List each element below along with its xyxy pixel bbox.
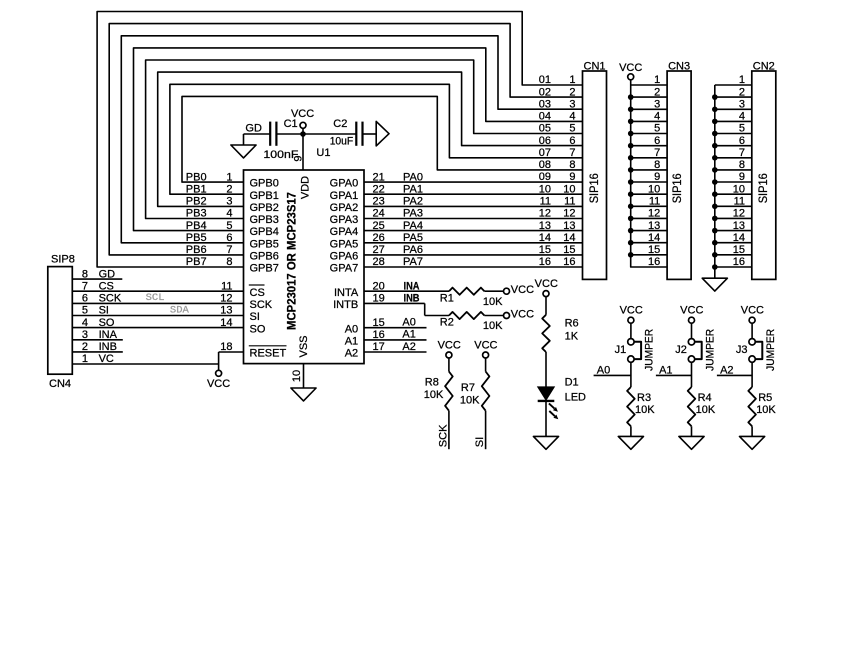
svg-text:13: 13 (539, 220, 551, 232)
wire net PA6 from U1 pin 27 to CN1 pin 15 (364, 254, 583, 256)
svg-text:CS: CS (250, 287, 265, 299)
svg-text:8: 8 (226, 256, 232, 268)
connector CN3 SIP16 body (667, 71, 691, 279)
svg-text:GPA7: GPA7 (330, 263, 359, 275)
resistor R8 (445, 372, 453, 411)
svg-text:GPB4: GPB4 (250, 226, 279, 238)
junction ground bus at CN2 pin 12 (712, 216, 718, 222)
svg-text:GPB7: GPB7 (250, 263, 279, 275)
wire CN2 pin 12 to ground bus (715, 217, 752, 219)
svg-text:GPA1: GPA1 (330, 190, 359, 202)
wire R1 to VCC pin (484, 290, 503, 292)
svg-text:INB: INB (404, 293, 420, 305)
wire CN2 pin 7 to ground bus (715, 157, 752, 159)
svg-text:JUMPER: JUMPER (765, 329, 777, 371)
wire VDD supply rail (244, 133, 271, 135)
svg-text:VCC: VCC (680, 305, 703, 317)
wire net GD stub at CN4 pin 8 (72, 278, 122, 280)
wire VCC to J2 pin 1 (691, 323, 693, 338)
resistor R4 (688, 387, 696, 426)
svg-text:SCL: SCL (146, 292, 165, 304)
wire VCC node to C2 (303, 133, 356, 135)
junction ground bus at CN2 pin 15 (712, 252, 718, 258)
wire CN3 pin 11 to VCC bus (631, 205, 667, 207)
svg-text:R3: R3 (637, 392, 651, 404)
svg-text:A2: A2 (720, 364, 733, 376)
capacitor C2 (355, 122, 357, 146)
svg-text:24: 24 (373, 208, 385, 220)
svg-text:CN3: CN3 (668, 60, 690, 72)
svg-text:PB4: PB4 (186, 220, 207, 232)
svg-text:VCC: VCC (291, 108, 314, 120)
svg-text:A0: A0 (597, 364, 610, 376)
wire CN2 pin 14 to ground bus (715, 242, 752, 244)
svg-text:02: 02 (539, 86, 551, 98)
svg-text:08: 08 (539, 159, 551, 171)
wire RESET to U1 pin 18 (219, 351, 244, 353)
wire VDD down to U1 (302, 134, 304, 170)
wire J1 pin 2 down to R3 (630, 362, 632, 387)
svg-text:10: 10 (733, 183, 745, 195)
wire net PA2 from U1 pin 23 to CN1 pin 11 (364, 205, 583, 207)
svg-text:2: 2 (654, 86, 660, 98)
svg-text:01: 01 (539, 74, 551, 86)
svg-text:10K: 10K (756, 404, 776, 416)
svg-text:VCC: VCC (207, 378, 230, 390)
jumper J2 pin 1 (688, 339, 694, 345)
wire net PA7 from U1 pin 28 to CN1 pin 16 (364, 266, 583, 268)
wire CN2 pin 13 to ground bus (715, 230, 752, 232)
wire net INB from U1 pin 19 (364, 302, 425, 304)
svg-text:16: 16 (539, 256, 551, 268)
svg-text:A2: A2 (345, 348, 358, 360)
junction ground bus at CN2 pin 13 (712, 228, 718, 234)
svg-text:PB5: PB5 (186, 232, 207, 244)
wire CN3 pin 15 to VCC bus (631, 254, 667, 256)
wire VC riser to RESET (218, 352, 220, 364)
svg-text:1: 1 (654, 74, 660, 86)
svg-text:J1: J1 (615, 344, 627, 356)
ground J2 symbol (679, 436, 704, 449)
svg-text:4: 4 (226, 208, 232, 220)
svg-text:A1: A1 (659, 364, 672, 376)
wire net SCK from CN4 pin 6 to U1 pin 12 (72, 302, 243, 304)
svg-text:VCC: VCC (511, 309, 534, 321)
svg-text:GD: GD (245, 123, 262, 135)
wire VCC to R7 (485, 358, 487, 372)
svg-text:10K: 10K (635, 404, 655, 416)
jumper J3 pin 2 (749, 356, 755, 362)
svg-text:9: 9 (654, 171, 660, 183)
svg-text:GPA5: GPA5 (330, 238, 359, 250)
wire net A0 stub at U1 (364, 327, 427, 329)
resistor R2 (449, 312, 484, 319)
svg-text:VSS: VSS (298, 335, 310, 357)
wire CN2 pin 9 to ground bus (715, 181, 752, 183)
junction VCC bus at CN3 pin 9 (628, 179, 634, 185)
wire net A0 to J1 (594, 374, 631, 376)
jumper J1 pin 1 (628, 339, 634, 345)
power VCC pin at R7 (483, 352, 489, 358)
svg-text:28: 28 (373, 256, 385, 268)
svg-text:PB0: PB0 (186, 171, 207, 183)
svg-text:12: 12 (648, 208, 660, 220)
wire CN3 pin 10 to VCC bus (631, 193, 667, 195)
svg-text:GPB3: GPB3 (250, 214, 279, 226)
wire R5 to ground (751, 426, 753, 436)
ground CN2 symbol (702, 278, 727, 291)
junction ground bus at CN2 pin 16 (712, 264, 718, 270)
wire net PB4 from U1 pin 5 loop to CN1 pin 4 (134, 48, 583, 231)
svg-text:VCC: VCC (511, 284, 534, 296)
svg-text:3: 3 (226, 196, 232, 208)
wire R7 to net SI (485, 411, 487, 450)
junction VCC bus at CN3 pin 6 (628, 143, 634, 149)
svg-text:6: 6 (226, 232, 232, 244)
svg-text:13: 13 (563, 220, 575, 232)
svg-text:11: 11 (540, 196, 551, 208)
svg-text:J2: J2 (675, 344, 687, 356)
svg-text:8: 8 (739, 159, 745, 171)
svg-text:11: 11 (649, 196, 660, 208)
svg-text:10K: 10K (424, 389, 444, 401)
junction VCC bus at CN3 pin 11 (628, 204, 634, 210)
svg-text:J3: J3 (736, 344, 748, 356)
svg-text:13: 13 (733, 220, 745, 232)
svg-text:03: 03 (539, 99, 551, 111)
svg-text:PB1: PB1 (186, 183, 207, 195)
svg-text:PA5: PA5 (403, 232, 423, 244)
svg-text:14: 14 (563, 232, 575, 244)
power VCC pin at RESET (218, 364, 220, 370)
svg-text:SIP8: SIP8 (51, 254, 75, 266)
junction ground bus at CN2 pin 9 (712, 179, 718, 185)
wire net INA from U1 pin 20 to R1 (364, 290, 449, 292)
svg-text:A1: A1 (345, 336, 358, 348)
svg-text:VCC: VCC (620, 305, 643, 317)
junction VCC bus at CN3 pin 5 (628, 131, 634, 137)
svg-text:7: 7 (226, 244, 232, 256)
svg-text:14: 14 (648, 232, 660, 244)
svg-text:3: 3 (739, 99, 745, 111)
svg-text:06: 06 (539, 135, 551, 147)
junction VCC bus at CN3 pin 8 (628, 167, 634, 173)
junction VCC bus at CN3 pin 15 (628, 252, 634, 258)
svg-text:JUMPER: JUMPER (644, 329, 656, 371)
svg-text:C2: C2 (333, 118, 347, 130)
svg-text:15: 15 (539, 244, 551, 256)
svg-text:MCP23017 OR MCP23S17: MCP23017 OR MCP23S17 (284, 192, 298, 330)
svg-text:27: 27 (373, 244, 385, 256)
wire net PB7 from U1 pin 8 loop to CN1 pin 1 (97, 12, 582, 268)
svg-text:15: 15 (648, 244, 660, 256)
connector CN2 SIP16 body (752, 71, 776, 279)
jumper J3 pin 1 (749, 339, 755, 345)
svg-text:SO: SO (250, 323, 266, 335)
junction VCC bus at CN3 pin 7 (628, 155, 634, 161)
ground J1 symbol (618, 436, 643, 449)
svg-text:PA2: PA2 (403, 196, 423, 208)
wire CN3 pin 8 to VCC bus (631, 169, 667, 171)
wire C1 to VCC node (276, 133, 303, 135)
svg-text:CN2: CN2 (753, 60, 775, 72)
resistor R5 (748, 387, 756, 426)
ground VSS symbol (291, 388, 316, 401)
svg-text:5: 5 (569, 123, 575, 135)
svg-text:04: 04 (539, 111, 551, 123)
svg-text:D1: D1 (565, 377, 579, 389)
svg-text:8: 8 (654, 159, 660, 171)
wire net INB stub at CN4 pin 2 (72, 351, 123, 353)
svg-text:5: 5 (654, 123, 660, 135)
LED D1 triangle (538, 387, 555, 400)
svg-text:VCC: VCC (438, 339, 461, 351)
svg-text:GPB1: GPB1 (250, 190, 279, 202)
junction ground bus at CN2 pin 8 (712, 167, 718, 173)
junction VCC bus at CN3 pin 2 (628, 94, 634, 100)
svg-text:6: 6 (569, 135, 575, 147)
svg-text:GPA4: GPA4 (330, 226, 359, 238)
resistor R6 (542, 315, 550, 352)
svg-text:10K: 10K (460, 395, 480, 407)
wire VSS to ground (303, 364, 305, 388)
svg-text:CN4: CN4 (49, 378, 71, 390)
junction VCC bus at CN3 pin 4 (628, 119, 634, 125)
power VCC pin at J1 (628, 317, 634, 323)
wire VCC bus CN3 (631, 80, 667, 267)
resistor R1 (449, 288, 484, 295)
svg-text:R6: R6 (565, 318, 579, 330)
wire net PB2 from U1 pin 3 loop to CN1 pin 6 (158, 72, 583, 206)
wire CN2 pin 4 to ground bus (715, 120, 752, 122)
svg-text:1: 1 (739, 74, 745, 86)
svg-text:22: 22 (373, 183, 385, 195)
svg-text:GPA0: GPA0 (330, 178, 359, 190)
power VCC pin at R8 (446, 352, 452, 358)
svg-text:R5: R5 (758, 392, 772, 404)
wire R8 to net SCK (448, 411, 450, 450)
jumper J2 bracket (695, 342, 702, 359)
wire R3 to ground (630, 426, 632, 436)
ground GD symbol (231, 145, 256, 158)
svg-text:PA0: PA0 (403, 171, 423, 183)
wire C2 to ground arrow (363, 133, 376, 135)
svg-text:R4: R4 (698, 392, 712, 404)
wire net PB5 from U1 pin 6 loop to CN1 pin 3 (121, 36, 582, 243)
svg-text:SIP16: SIP16 (756, 173, 770, 203)
svg-text:13: 13 (648, 220, 660, 232)
svg-text:15: 15 (733, 244, 745, 256)
wire VCC to J1 pin 1 (630, 323, 632, 338)
junction ground bus at CN2 pin 11 (712, 204, 718, 210)
wire net PA0 from U1 pin 21 to CN1 pin 9 (364, 181, 583, 183)
svg-text:5: 5 (226, 220, 232, 232)
svg-text:SI: SI (474, 437, 486, 447)
resistor R3 (627, 387, 635, 426)
svg-text:CN1: CN1 (584, 60, 606, 72)
wire ground bus CN2 (714, 85, 716, 278)
svg-text:GPB0: GPB0 (250, 178, 279, 190)
svg-text:VCC: VCC (474, 339, 497, 351)
svg-text:VCC: VCC (535, 278, 558, 290)
svg-text:SIP16: SIP16 (587, 173, 601, 203)
svg-text:U1: U1 (316, 147, 330, 159)
wire net PB3 from U1 pin 4 loop to CN1 pin 5 (146, 60, 583, 219)
power VCC pin at R1 (504, 288, 510, 294)
svg-text:INA: INA (404, 280, 420, 292)
junction ground bus at CN2 pin 4 (712, 119, 718, 125)
ground symbol right of C2 (376, 121, 389, 145)
svg-text:2: 2 (226, 183, 232, 195)
svg-text:6: 6 (739, 135, 745, 147)
wire CN3 pin 6 to VCC bus (631, 145, 667, 147)
svg-text:PA1: PA1 (403, 183, 423, 195)
wire CN2 pin 5 to ground bus (715, 133, 752, 135)
svg-text:R7: R7 (461, 382, 475, 394)
svg-text:GPA2: GPA2 (330, 202, 359, 214)
wire CN2 pin 11 to ground bus (715, 205, 752, 207)
wire net VC from CN4 pin 1 (72, 363, 218, 365)
svg-text:12: 12 (563, 208, 575, 220)
svg-text:A0: A0 (345, 323, 358, 335)
svg-text:9: 9 (739, 171, 745, 183)
svg-text:PB7: PB7 (186, 256, 207, 268)
ground GD stub (243, 134, 245, 145)
LED D1 light arrows (549, 403, 558, 419)
svg-text:SI: SI (250, 311, 260, 323)
svg-text:21: 21 (373, 171, 385, 183)
svg-text:10K: 10K (483, 296, 503, 308)
wire net PA5 from U1 pin 26 to CN1 pin 14 (364, 242, 583, 244)
svg-text:INTA: INTA (334, 287, 359, 299)
svg-text:SIP16: SIP16 (670, 173, 684, 203)
wire INB to R2 (425, 315, 449, 317)
svg-text:2: 2 (739, 86, 745, 98)
power VCC pin at R6 (543, 291, 549, 297)
svg-text:16: 16 (733, 256, 745, 268)
junction ground bus at CN2 pin 3 (712, 107, 718, 113)
junction VCC bus at CN3 pin 13 (628, 228, 634, 234)
wire CN3 pin 5 to VCC bus (631, 133, 667, 135)
svg-text:15: 15 (563, 244, 575, 256)
junction VCC bus at CN3 pin 3 (628, 107, 634, 113)
svg-text:11: 11 (564, 196, 575, 208)
svg-text:7: 7 (654, 147, 660, 159)
svg-text:VCC: VCC (619, 62, 642, 74)
wire CN3 pin 1 to VCC bus (631, 84, 667, 86)
svg-text:RESET: RESET (250, 348, 287, 360)
svg-text:GPA3: GPA3 (330, 214, 359, 226)
svg-text:PB6: PB6 (186, 244, 207, 256)
wire net CS from CN4 pin 7 to U1 pin 11 (72, 290, 243, 292)
svg-text:09: 09 (539, 171, 551, 183)
wire CN3 pin 7 to VCC bus (631, 157, 667, 159)
svg-text:SDA: SDA (170, 304, 190, 316)
junction ground bus at CN2 pin 2 (712, 94, 718, 100)
power VCC pin at R2 (504, 313, 510, 319)
wire CN2 pin 15 to ground bus (715, 254, 752, 256)
svg-text:1: 1 (226, 171, 232, 183)
wire CN3 pin 12 to VCC bus (631, 217, 667, 219)
svg-text:R1: R1 (440, 292, 454, 304)
wire net A2 to J3 (717, 374, 752, 376)
svg-text:SCK: SCK (250, 299, 273, 311)
svg-text:GPB5: GPB5 (250, 238, 279, 250)
wire net PA1 from U1 pin 22 to CN1 pin 10 (364, 193, 583, 195)
svg-text:10K: 10K (483, 320, 503, 332)
svg-text:A2: A2 (402, 341, 415, 353)
svg-text:100nF: 100nF (263, 149, 298, 161)
wire CN3 pin 2 to VCC bus (631, 96, 667, 98)
svg-text:12: 12 (539, 208, 551, 220)
svg-text:R8: R8 (425, 376, 439, 388)
wire VCC to J3 pin 1 (751, 323, 753, 338)
svg-text:GPB2: GPB2 (250, 202, 279, 214)
capacitor C1 (269, 122, 271, 146)
jumper J2 pin 2 (688, 356, 694, 362)
power VCC pin at J3 (749, 317, 755, 323)
svg-text:VDD: VDD (299, 176, 311, 199)
svg-text:LED: LED (565, 392, 586, 404)
wire net SO from CN4 pin 4 to U1 pin 14 (72, 327, 243, 329)
svg-text:PA4: PA4 (403, 220, 423, 232)
svg-text:7: 7 (569, 147, 575, 159)
svg-text:07: 07 (539, 147, 551, 159)
svg-text:A0: A0 (402, 317, 415, 329)
svg-text:26: 26 (373, 232, 385, 244)
op-amp U1 MCP23017 OR MCP23S17 IC body (244, 170, 365, 364)
svg-text:10: 10 (291, 370, 303, 382)
wire CN3 pin 9 to VCC bus (631, 181, 667, 183)
wire VCC to R8 (448, 358, 450, 372)
wire net PB0 from U1 pin 1 loop to CN1 pin 8 (182, 96, 583, 182)
wire net INA stub at CN4 pin 3 (72, 339, 123, 341)
svg-text:4: 4 (569, 111, 575, 123)
svg-text:1: 1 (569, 74, 575, 86)
svg-text:PA6: PA6 (403, 244, 423, 256)
svg-text:10: 10 (648, 183, 660, 195)
power VCC pin at J2 (689, 317, 695, 323)
svg-text:PA7: PA7 (403, 256, 423, 268)
wire CN2 pin 10 to ground bus (715, 193, 752, 195)
wire net A1 stub at U1 (364, 339, 427, 341)
svg-text:16: 16 (563, 256, 575, 268)
ground J3 symbol (740, 436, 765, 449)
node VCC junction (302, 128, 304, 134)
svg-text:5: 5 (739, 123, 745, 135)
wire net A1 to J2 (656, 374, 692, 376)
svg-text:4: 4 (654, 111, 660, 123)
junction ground bus at CN2 pin 7 (712, 155, 718, 161)
wire J2 pin 2 down to R4 (691, 362, 693, 387)
junction ground bus at CN2 pin 6 (712, 143, 718, 149)
LED D1 cathode bar (538, 400, 555, 402)
svg-text:GPB6: GPB6 (250, 251, 279, 263)
svg-text:10: 10 (539, 183, 551, 195)
svg-text:10K: 10K (696, 404, 716, 416)
wire CN3 pin 4 to VCC bus (631, 120, 667, 122)
svg-text:VCC: VCC (741, 305, 764, 317)
svg-text:1K: 1K (565, 331, 579, 343)
svg-text:JUMPER: JUMPER (704, 329, 716, 371)
ground D1 symbol (533, 436, 558, 449)
svg-text:PB3: PB3 (186, 208, 207, 220)
wire CN3 pin 3 to VCC bus (631, 108, 667, 110)
svg-text:6: 6 (654, 135, 660, 147)
svg-text:14: 14 (733, 232, 745, 244)
wire VCC to R6 (545, 297, 547, 315)
svg-text:7: 7 (739, 147, 745, 159)
